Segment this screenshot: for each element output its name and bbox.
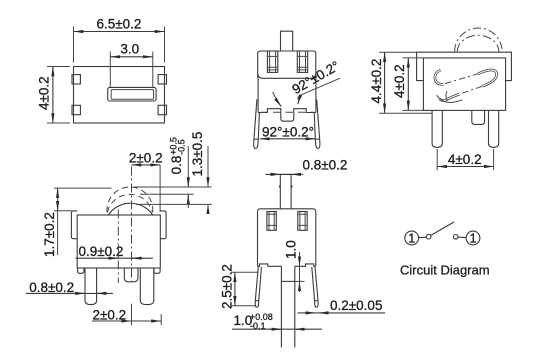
wire right [458, 236, 466, 238]
svg-text:4±0.2: 4±0.2 [448, 152, 482, 167]
dim 0.8 line [26, 292, 113, 294]
dim 1.7 line [57, 188, 59, 255]
hole left outer [267, 51, 277, 72]
angle leader line under text [298, 78, 340, 99]
dim 1.0+0.08-0.1 label [234, 312, 273, 331]
hole right (side) [298, 212, 307, 231]
svg-text:3.0: 3.0 [120, 41, 139, 56]
actuator slot inner [111, 90, 153, 100]
wire left [419, 236, 427, 238]
dim 0.8 right line [187, 146, 189, 187]
actuator line lower extension [131, 304, 133, 326]
corner stub right [154, 268, 160, 273]
hole left (side) [267, 212, 276, 231]
svg-text:1: 1 [470, 232, 477, 246]
flange outline [417, 52, 512, 80]
corner stub left [78, 268, 84, 273]
side notch top-right [158, 75, 166, 84]
switch body top view outline [74, 67, 165, 124]
dim 4 line [52, 67, 54, 124]
terminal 1 left circle [405, 231, 419, 245]
dim 1.3 right line [207, 146, 209, 187]
dim 0.8 arrow left [73, 292, 86, 294]
dim 0.8 arrow right [97, 292, 109, 294]
dim 4 left extension top [403, 57, 424, 59]
body upper rounded [258, 51, 316, 78]
leg left (front view) [254, 99, 260, 148]
center pin [281, 266, 294, 347]
svg-text:6.5±0.2: 6.5±0.2 [97, 17, 142, 32]
svg-text:Circuit Diagram: Circuit Diagram [400, 263, 490, 278]
angle leader curved left [273, 92, 282, 107]
contact node right [453, 235, 458, 240]
svg-text:-0.5: -0.5 [177, 139, 187, 155]
dim 4 left line [407, 58, 409, 111]
svg-text:4±0.2: 4±0.2 [392, 64, 407, 98]
dim 0.9 arrow right [132, 257, 144, 259]
side notch bottom-left [72, 105, 80, 114]
svg-text:0.8: 0.8 [169, 156, 184, 175]
body bottom profile [258, 264, 316, 266]
actuator center line (dash-dot) [131, 167, 133, 282]
dim 3.0 extension left [109, 52, 111, 88]
dim 0.9 arrow left [106, 257, 118, 259]
dim 2 top line [132, 164, 161, 166]
leg center short [124, 268, 138, 282]
extension line free apex right [134, 186, 212, 188]
dim 6.5 extension right [164, 27, 166, 63]
dim 2 bottom extension right [160, 314, 162, 325]
side notch top-left [72, 75, 80, 84]
dome arc solid pressed [108, 203, 153, 215]
dim 2.5 extension bottom [231, 305, 256, 307]
svg-text:0.8±0.2: 0.8±0.2 [29, 280, 74, 295]
extension line solid apex right [136, 203, 212, 205]
middle stub [472, 110, 485, 124]
svg-text:2±0.2: 2±0.2 [93, 307, 127, 322]
svg-text:0.2±0.05: 0.2±0.05 [330, 298, 382, 313]
dim 2.5 line [234, 272, 236, 306]
stem (long) [280, 174, 293, 208]
dim 4.4 line [384, 52, 386, 113]
svg-text:1.0: 1.0 [284, 240, 299, 259]
spring bottom-left hook [440, 94, 460, 101]
body outline [423, 58, 505, 111]
dim 1.0 extension [295, 280, 305, 282]
dim 4 bottom extension left [436, 149, 438, 170]
dim 6.5 extension left [73, 27, 75, 63]
ear tab left [71, 211, 77, 239]
contact node left [426, 234, 431, 239]
spring left hook [435, 70, 444, 84]
svg-text:4±0.2: 4±0.2 [36, 76, 51, 110]
spring right hook [478, 70, 497, 86]
stem [281, 31, 293, 51]
dim 2 top extension right [159, 165, 161, 212]
hole left inner [267, 51, 277, 72]
svg-text:1: 1 [408, 232, 415, 246]
dim 0.8 tol label (rotated) [169, 137, 187, 174]
leg left (pin view) [255, 267, 261, 308]
leg left (dome view) [85, 268, 97, 305]
svg-text:2±0.2: 2±0.2 [129, 151, 163, 166]
svg-text:0.9±0.2: 0.9±0.2 [79, 244, 124, 259]
dome arc dashed free position [107, 187, 153, 212]
body center line (dash-dot) [117, 210, 119, 284]
svg-text:1.7±0.2: 1.7±0.2 [42, 212, 57, 257]
dim 1.7 extension bottom [54, 210, 71, 212]
switch lever [431, 222, 454, 236]
leg right (dome view) [140, 268, 154, 305]
extension line mid apex right [140, 193, 194, 195]
dim 0.9 line [76, 257, 153, 259]
leg right (side view) [489, 110, 499, 147]
dim 3.0 extension right [152, 52, 154, 88]
dim 6.5 line [74, 31, 165, 33]
side notch bottom-right [158, 105, 166, 114]
dim 0.8 line (pin view) [266, 173, 303, 175]
leg left (side view) [432, 110, 442, 147]
dim 4 extension bottom [47, 122, 70, 124]
dome arc inner (dash-dot) [457, 35, 499, 52]
angle leader arrow right [298, 97, 300, 105]
base profile with center tab [258, 109, 316, 122]
spring wire end crossing [446, 91, 448, 101]
terminal 1 right circle [466, 231, 480, 245]
spring top segment dash [445, 74, 479, 84]
pin crossbar [281, 280, 294, 282]
ear tab right [160, 211, 166, 239]
dim 2 bottom arrows [119, 320, 131, 322]
svg-text:1.3±0.5: 1.3±0.5 [190, 132, 205, 177]
dome arc dashed mid position [107, 194, 152, 212]
dim 2 bottom line [92, 320, 161, 322]
dim 4 bottom extension right [493, 149, 495, 170]
svg-text:0.8±0.2: 0.8±0.2 [303, 157, 348, 172]
svg-text:92°±0.2°: 92°±0.2° [262, 124, 314, 139]
extension line free apex [54, 187, 112, 189]
lower body sides [258, 78, 316, 112]
leg right (front view) [314, 99, 320, 148]
actuator slot outer [108, 87, 156, 101]
dim 1.0 line [299, 252, 301, 292]
svg-text:4.4±0.2: 4.4±0.2 [369, 59, 384, 104]
dim 4.4 extension bottom [379, 112, 432, 114]
body outline [77, 215, 160, 268]
body outline [258, 209, 316, 266]
hole right inner [297, 51, 307, 72]
hidden dashed line [261, 111, 315, 113]
dim 4 extension top [47, 66, 70, 68]
dim 1.0 bottom line [232, 328, 322, 330]
dim 3.0 line [110, 56, 153, 58]
dim 2.5 extension top [231, 271, 259, 273]
dim 4 bottom line [437, 166, 493, 168]
svg-text:2.5±0.2: 2.5±0.2 [220, 264, 235, 309]
hole right outer [297, 51, 307, 72]
dim 0.2 line [298, 312, 386, 314]
leg right (pin view) [312, 267, 318, 308]
spring lower strand [437, 95, 463, 102]
spring bottom segment dash [460, 86, 483, 94]
dim 4 left extension bottom [403, 109, 424, 111]
dome arc outer (dash-dot) [455, 28, 503, 52]
dim 4.4 extension top [379, 51, 417, 53]
angle dim line bottom [260, 138, 316, 140]
